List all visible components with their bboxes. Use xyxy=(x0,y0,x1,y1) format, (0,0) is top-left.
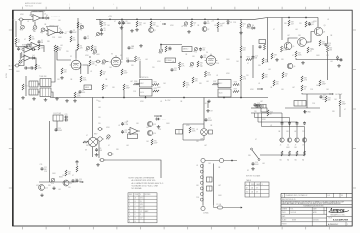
wire xyxy=(51,62,55,82)
svg-text:Q2: Q2 xyxy=(207,29,209,31)
label BIAS xyxy=(59,175,63,178)
label + xyxy=(160,21,161,23)
wire xyxy=(50,97,268,99)
capacitor C34 xyxy=(76,179,83,183)
op-amp U6 xyxy=(128,127,140,134)
wire xyxy=(98,141,100,158)
svg-text:500P: 500P xyxy=(124,72,128,74)
svg-text:V3: V3 xyxy=(111,54,113,56)
svg-text:B: B xyxy=(135,201,136,203)
module M14 xyxy=(294,101,306,107)
svg-text:.047: .047 xyxy=(222,23,225,25)
module M17 xyxy=(176,130,183,135)
ground xyxy=(168,47,172,50)
svg-text:J8: J8 xyxy=(302,144,304,146)
svg-text:B25B: B25B xyxy=(6,72,8,78)
resistor R57 xyxy=(301,85,307,91)
svg-text:220: 220 xyxy=(68,187,71,189)
resistor R54 xyxy=(282,72,288,78)
svg-text:IN 2: IN 2 xyxy=(8,65,11,67)
svg-text:R48: R48 xyxy=(304,78,307,80)
svg-text:C23: C23 xyxy=(79,179,82,181)
transistor Q10 xyxy=(302,138,306,142)
svg-text:P8: P8 xyxy=(93,54,95,56)
svg-text:47: 47 xyxy=(72,175,74,177)
label + xyxy=(113,4,115,6)
svg-text:NONE: NONE xyxy=(292,220,296,222)
svg-text:500P: 500P xyxy=(73,32,77,34)
rectifier CR1 xyxy=(207,177,213,182)
transistor Q14 xyxy=(147,130,156,135)
ground xyxy=(40,194,44,197)
potentiometer P7 xyxy=(18,60,22,66)
label BASS CHANNEL xyxy=(33,10,46,13)
ground xyxy=(187,30,191,33)
svg-text:R37: R37 xyxy=(213,81,216,83)
wire xyxy=(223,96,225,99)
wire xyxy=(83,65,88,74)
node N8 xyxy=(217,18,219,20)
capacitor C12 xyxy=(126,58,130,63)
module M10 xyxy=(218,80,231,88)
ground xyxy=(256,104,260,107)
wire xyxy=(160,45,162,49)
svg-text:10MF: 10MF xyxy=(322,83,326,85)
svg-text:.001: .001 xyxy=(143,23,146,25)
svg-text:P11: P11 xyxy=(247,28,250,30)
svg-text:.047: .047 xyxy=(291,23,294,25)
wire xyxy=(339,106,341,117)
svg-text:230: 230 xyxy=(246,191,249,193)
svg-text:.001: .001 xyxy=(268,69,271,71)
svg-text:.02: .02 xyxy=(304,88,306,90)
node N6 xyxy=(191,18,193,20)
svg-text:Q13: Q13 xyxy=(153,124,156,126)
transistor Q2 xyxy=(202,27,209,32)
jack J3 xyxy=(95,60,101,63)
resistor R67 xyxy=(76,166,78,172)
svg-text:10MF: 10MF xyxy=(168,49,172,51)
resistor R26 xyxy=(165,46,172,52)
svg-text:C9: C9 xyxy=(207,21,209,23)
svg-text:.047: .047 xyxy=(200,66,203,68)
svg-text:R23: R23 xyxy=(137,58,140,60)
node N13 xyxy=(145,97,147,99)
ground xyxy=(135,28,139,31)
label REV xyxy=(94,133,98,135)
svg-text:.5: .5 xyxy=(140,214,141,216)
ground xyxy=(206,109,213,113)
potentiometer P16 xyxy=(50,178,54,185)
label J7 xyxy=(295,144,297,146)
svg-text:C8: C8 xyxy=(125,21,127,23)
transistor Q1 xyxy=(149,28,156,33)
wire xyxy=(16,44,28,47)
svg-text:R1: R1 xyxy=(18,40,20,42)
svg-text:C5: C5 xyxy=(82,90,84,92)
svg-text:.047: .047 xyxy=(204,145,207,147)
svg-text:3: 3 xyxy=(129,204,130,206)
transistor Q11 xyxy=(63,180,72,186)
svg-text:J3: J3 xyxy=(95,65,97,67)
svg-text:CHKD: CHKD xyxy=(282,212,286,214)
svg-text:C3: C3 xyxy=(73,30,75,32)
diode D4 xyxy=(31,55,36,59)
ground xyxy=(157,125,161,128)
svg-text:V4: V4 xyxy=(206,52,208,54)
ground xyxy=(95,153,99,156)
svg-text:D5: D5 xyxy=(230,22,232,24)
module M4 xyxy=(40,88,51,97)
svg-text:C13: C13 xyxy=(203,55,206,57)
capacitor C2 xyxy=(84,36,90,40)
svg-text:Q11: Q11 xyxy=(69,183,72,185)
svg-text:P14: P14 xyxy=(194,52,197,54)
svg-text:47: 47 xyxy=(273,29,275,31)
resistor R60 xyxy=(339,100,346,106)
resistor R6 xyxy=(77,44,84,50)
svg-text:ALL CAPACITORS IN MFD 600V D.C: ALL CAPACITORS IN MFD 600V D.C. xyxy=(132,182,165,185)
svg-text:R32: R32 xyxy=(195,79,198,81)
svg-text:B-25-B AMPLIFIER: B-25-B AMPLIFIER xyxy=(333,219,349,222)
label 6V xyxy=(85,150,88,152)
svg-text:C12: C12 xyxy=(126,58,129,60)
resistor R44 xyxy=(262,58,269,64)
ground xyxy=(100,32,104,35)
op-amp U5 xyxy=(22,55,33,61)
svg-text:7: 7 xyxy=(129,218,130,220)
signal arrow xyxy=(162,23,166,25)
svg-text:47: 47 xyxy=(86,135,88,137)
resistor R18 xyxy=(136,21,143,27)
ground xyxy=(251,167,255,170)
resistor R30 xyxy=(134,81,140,85)
label +15 xyxy=(211,20,214,22)
svg-text:R24: R24 xyxy=(103,72,106,74)
resistor R64 xyxy=(296,151,298,156)
wire xyxy=(104,160,161,178)
tube V2 xyxy=(110,55,123,67)
resistor R35 xyxy=(192,77,199,83)
svg-text:TITLE: TITLE xyxy=(328,218,332,220)
op-amp U3 xyxy=(29,42,40,48)
module M13 xyxy=(261,108,267,112)
svg-text:- - -: - - - xyxy=(163,119,166,121)
svg-text:.02: .02 xyxy=(172,61,174,63)
svg-text:V: V xyxy=(246,184,247,186)
svg-text:R13: R13 xyxy=(83,78,86,80)
svg-text:10MF: 10MF xyxy=(208,120,212,122)
resistor R38 xyxy=(233,82,239,86)
label 8Ω xyxy=(295,159,298,161)
potentiometer P17 xyxy=(106,135,110,141)
svg-text:220: 220 xyxy=(98,123,101,125)
switch S2 xyxy=(251,148,261,161)
wire xyxy=(57,52,71,60)
node N14 xyxy=(183,97,185,99)
resistor R2 xyxy=(29,35,36,41)
svg-text:P7: P7 xyxy=(19,64,21,66)
svg-text:R7: R7 xyxy=(73,38,75,40)
svg-text:.001: .001 xyxy=(330,61,333,63)
svg-text:.02: .02 xyxy=(27,21,29,23)
svg-text:.047: .047 xyxy=(218,185,221,187)
svg-text:47: 47 xyxy=(255,139,257,141)
jack J7 xyxy=(99,158,105,162)
capacitor C26 xyxy=(296,122,299,126)
diode D7 xyxy=(336,56,339,61)
svg-text:.1: .1 xyxy=(243,25,244,27)
resistor R51 xyxy=(307,47,313,53)
label TONE SW xyxy=(39,76,47,78)
svg-text:C25: C25 xyxy=(124,130,127,132)
wire xyxy=(139,61,141,78)
wire xyxy=(34,22,36,26)
capacitor C14 xyxy=(171,68,178,72)
svg-text:R39: R39 xyxy=(291,22,294,24)
capacitor C4 xyxy=(17,47,24,51)
potentiometer P12 xyxy=(102,60,106,66)
capacitor C13 xyxy=(128,46,135,50)
transistor Q6 xyxy=(287,63,295,69)
wire xyxy=(296,58,342,60)
signal arrow xyxy=(257,88,263,90)
svg-text:R34: R34 xyxy=(243,48,246,50)
wire xyxy=(161,44,182,46)
capacitor C29 xyxy=(65,114,69,119)
module M9 xyxy=(182,47,192,52)
svg-text:.02: .02 xyxy=(270,125,272,127)
svg-text:.047: .047 xyxy=(294,131,297,133)
wire xyxy=(89,56,91,58)
ground xyxy=(239,31,243,34)
svg-text:.02: .02 xyxy=(160,101,162,103)
capacitor C1 xyxy=(38,40,44,44)
wire xyxy=(106,61,109,63)
capacitor C9 xyxy=(118,21,126,25)
resistor R53 xyxy=(326,46,333,52)
svg-text:4010: 4010 xyxy=(140,92,144,94)
node N11 xyxy=(102,97,104,99)
resistor R68 xyxy=(151,139,158,145)
transistor Q5 xyxy=(284,42,294,50)
plug strip P3 xyxy=(256,105,267,109)
module M3 xyxy=(40,79,51,87)
svg-text:R20: R20 xyxy=(193,23,196,25)
potentiometer P13 xyxy=(159,49,163,55)
svg-text:Q1: Q1 xyxy=(154,30,156,32)
svg-text:Q14: Q14 xyxy=(153,133,156,135)
svg-text:.02: .02 xyxy=(181,26,183,28)
capacitor C22 xyxy=(320,95,326,99)
resistor R19 xyxy=(150,21,157,27)
capacitor C6 xyxy=(30,67,34,70)
label B+ xyxy=(97,100,99,102)
capacitor C5 xyxy=(24,67,28,70)
svg-text:C31: C31 xyxy=(40,164,43,166)
svg-text:P6: P6 xyxy=(86,51,88,53)
lamp optocoupler DS2 xyxy=(200,129,213,141)
svg-text:.047: .047 xyxy=(292,87,295,89)
svg-text:47: 47 xyxy=(24,39,26,41)
svg-text:5: 5 xyxy=(129,211,130,213)
svg-text:PWR MOD: PWR MOD xyxy=(141,77,150,79)
svg-text:1: 1 xyxy=(129,198,130,200)
svg-text:R42: R42 xyxy=(298,53,301,55)
parts table xyxy=(128,193,157,223)
label .05 xyxy=(59,28,61,30)
svg-text:220: 220 xyxy=(246,75,249,77)
svg-text:ALL RESISTORS 1/2W 10%: ALL RESISTORS 1/2W 10% xyxy=(132,179,156,182)
svg-text:R39: R39 xyxy=(234,89,237,91)
svg-text:C30: C30 xyxy=(65,117,68,119)
capacitor C18 xyxy=(259,45,262,49)
wire xyxy=(31,58,37,64)
label +24V xyxy=(108,16,113,18)
svg-text:.1: .1 xyxy=(274,56,275,58)
resistor R5 xyxy=(77,22,84,28)
svg-text:IN 1: IN 1 xyxy=(12,19,15,21)
svg-text:J7: J7 xyxy=(295,144,297,146)
signal arrow xyxy=(154,115,162,117)
module M16 xyxy=(128,134,138,139)
resistor R43 xyxy=(263,44,265,50)
label . . xyxy=(246,20,248,22)
node N15 xyxy=(223,97,225,99)
ground xyxy=(120,26,124,29)
svg-text:D2: D2 xyxy=(60,30,62,32)
svg-text:C19: C19 xyxy=(255,162,258,164)
resistor R37 xyxy=(213,81,219,85)
label NORMAL CH xyxy=(22,43,33,46)
feedback loop U1 xyxy=(31,12,43,18)
svg-text:NOTES: NOTES xyxy=(145,194,151,196)
resistor R20 xyxy=(190,21,196,27)
wire xyxy=(28,67,30,69)
resistor R11 xyxy=(56,46,62,52)
capacitor C24 xyxy=(281,122,284,126)
label V2 xyxy=(70,56,72,58)
module M5 xyxy=(84,85,92,90)
svg-text:.047: .047 xyxy=(287,35,290,37)
node N10 xyxy=(240,56,242,58)
wire xyxy=(92,98,94,138)
wire xyxy=(203,98,205,129)
wire xyxy=(288,38,298,42)
capacitor C16 xyxy=(200,55,207,59)
wire xyxy=(217,28,219,32)
ladder bottom bus xyxy=(282,110,305,155)
svg-text:.02: .02 xyxy=(327,19,329,21)
svg-text:.1: .1 xyxy=(193,24,194,26)
node N16 xyxy=(240,97,242,99)
label V4 xyxy=(206,52,208,54)
resistor R70 xyxy=(83,141,88,143)
label .02 xyxy=(44,14,46,16)
svg-text:1: 1 xyxy=(282,195,283,197)
resistor R56 xyxy=(301,76,308,82)
potentiometer P9 xyxy=(96,32,100,36)
op-amp U4 xyxy=(22,47,33,53)
potentiometer P15 xyxy=(190,62,194,68)
pilot lamp DS1 xyxy=(88,137,97,146)
svg-text:R28: R28 xyxy=(105,86,108,88)
svg-text:R6: R6 xyxy=(80,46,82,48)
svg-text:R2: R2 xyxy=(32,37,34,39)
wire xyxy=(77,18,79,46)
potentiometer P10 xyxy=(184,22,188,28)
resistor R25 xyxy=(121,69,128,75)
svg-text:.001: .001 xyxy=(295,29,298,31)
module M15 xyxy=(53,115,63,121)
label Q5 xyxy=(324,25,326,27)
svg-text:F: F xyxy=(135,214,136,216)
svg-text:500P: 500P xyxy=(154,142,158,144)
label - - - - - xyxy=(65,31,71,33)
svg-text:.001: .001 xyxy=(206,81,209,83)
tube V1 xyxy=(70,58,83,70)
wire xyxy=(56,121,58,131)
wire xyxy=(99,19,101,25)
svg-text:220: 220 xyxy=(299,23,302,25)
svg-text:E: E xyxy=(135,211,136,213)
resistor R50 xyxy=(295,51,302,57)
module M7 xyxy=(140,80,153,88)
svg-text:R44: R44 xyxy=(322,42,325,44)
transistor Q7 xyxy=(280,138,284,142)
svg-text:Q6: Q6 xyxy=(293,66,295,68)
svg-text:R30: R30 xyxy=(134,81,137,83)
fuse F1 xyxy=(214,203,239,209)
wire xyxy=(25,76,27,96)
wire loop xyxy=(183,124,204,140)
svg-text:R10: R10 xyxy=(25,86,28,88)
resistor R27 xyxy=(178,62,185,68)
svg-text:P12: P12 xyxy=(102,64,105,66)
svg-text:Q4: Q4 xyxy=(307,42,309,44)
wire xyxy=(23,19,31,21)
wire xyxy=(317,18,319,28)
svg-text:2: 2 xyxy=(129,201,130,203)
svg-text:.047: .047 xyxy=(64,33,67,35)
svg-text:R33: R33 xyxy=(207,73,210,75)
svg-text:B+ 35V: B+ 35V xyxy=(165,100,171,102)
svg-text:220: 220 xyxy=(98,117,101,119)
wire xyxy=(306,94,308,108)
resistor R23 xyxy=(134,56,141,62)
wire xyxy=(20,21,22,25)
svg-text:R30: R30 xyxy=(200,63,203,65)
svg-text:47: 47 xyxy=(292,55,294,57)
ground xyxy=(337,64,341,67)
svg-text:R37: R37 xyxy=(265,75,268,77)
title block xyxy=(281,193,352,226)
svg-text:220: 220 xyxy=(237,85,240,87)
capacitor C23 xyxy=(254,103,262,107)
wire xyxy=(45,30,48,31)
resistor R28 xyxy=(102,84,108,90)
svg-text:R19: R19 xyxy=(153,23,156,25)
wire xyxy=(39,181,76,183)
svg-text:.001: .001 xyxy=(98,107,101,109)
op-amp U1 xyxy=(31,15,43,22)
svg-text:J6: J6 xyxy=(287,144,289,146)
wire xyxy=(49,121,51,182)
svg-text:R51: R51 xyxy=(328,98,331,100)
wire xyxy=(339,94,341,99)
diode D6 xyxy=(251,25,256,29)
svg-text:47: 47 xyxy=(108,145,110,147)
